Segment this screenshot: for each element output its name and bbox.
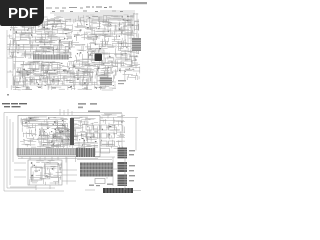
parts table caption: [118, 80, 126, 84]
power supply sub-board outline: [28, 160, 62, 185]
interlink wires bottom: [62, 150, 141, 191]
IC U801 vertical module: [70, 118, 74, 145]
right area long wires: [100, 114, 138, 151]
right column modules row2: [86, 133, 115, 138]
band to grid link wires: [10, 157, 112, 187]
main board outline: [18, 116, 100, 157]
sub-board mesh: [30, 161, 62, 186]
shield boxes bottom row: [14, 76, 108, 85]
component label dashes top row: [52, 11, 123, 13]
PDF badge: [0, 0, 44, 26]
transistor row boxes: [30, 63, 60, 70]
right side module boxes: [121, 54, 138, 67]
transformer T801: [31, 167, 42, 180]
video block outline: [92, 20, 132, 34]
connector block P801 hatched: [76, 148, 95, 157]
right column modules row3: [101, 141, 115, 146]
degauss terminal strip: [103, 188, 133, 193]
sheet 1 title text row: [46, 7, 112, 8]
sub-board feed wires: [36, 157, 76, 191]
dense cluster lower board: [39, 128, 72, 147]
lower component mesh: [10, 70, 116, 90]
regulator block: [45, 164, 58, 177]
sheet 2 title text line 1: [2, 103, 27, 104]
box top entry stubs: [60, 109, 72, 116]
mid-right component mesh: [72, 62, 118, 76]
left wiring mesh (tuner/IF): [9, 16, 72, 58]
sheet 2 notes text: [78, 103, 100, 112]
left edge wire: [7, 28, 16, 88]
sheet 1 page number: [7, 94, 9, 96]
sheet 2 title text line 2: [4, 106, 21, 107]
junction box J801: [101, 149, 110, 154]
heatsink hatch band: [17, 149, 95, 156]
fuse marks: [89, 184, 113, 187]
parts table block sheet 1: [100, 78, 112, 86]
left feeder wires: [4, 113, 122, 192]
board bus wires: [22, 120, 68, 126]
board bottom rail: [18, 157, 98, 161]
shield box inner parts: [17, 78, 106, 83]
mid horizontal bus: [7, 45, 75, 53]
component row under U301: [13, 61, 75, 74]
connector ladder CN1: [132, 38, 141, 51]
sheet 1 header note top-right: [129, 2, 147, 4]
right lower mesh: [119, 65, 140, 81]
right wiring mesh (chroma/video): [72, 14, 139, 66]
IC U201 dark module: [88, 50, 104, 64]
ladder connector CN801: [118, 148, 128, 159]
right column modules row1: [86, 125, 115, 130]
connector grid P802: [80, 163, 113, 177]
main board mesh: [20, 117, 98, 148]
relay box K801: [95, 179, 105, 184]
IC U301 long DIP: [33, 55, 69, 60]
bottom label marks sheet 1: [16, 87, 102, 89]
ladder side labels: [129, 150, 135, 181]
ladder connector CN803: [118, 175, 128, 187]
ladder connector CN802: [118, 162, 128, 172]
long signal wires (sheet 1): [13, 21, 107, 41]
right interconnect mesh: [100, 115, 125, 151]
top bus wires: [50, 11, 137, 61]
